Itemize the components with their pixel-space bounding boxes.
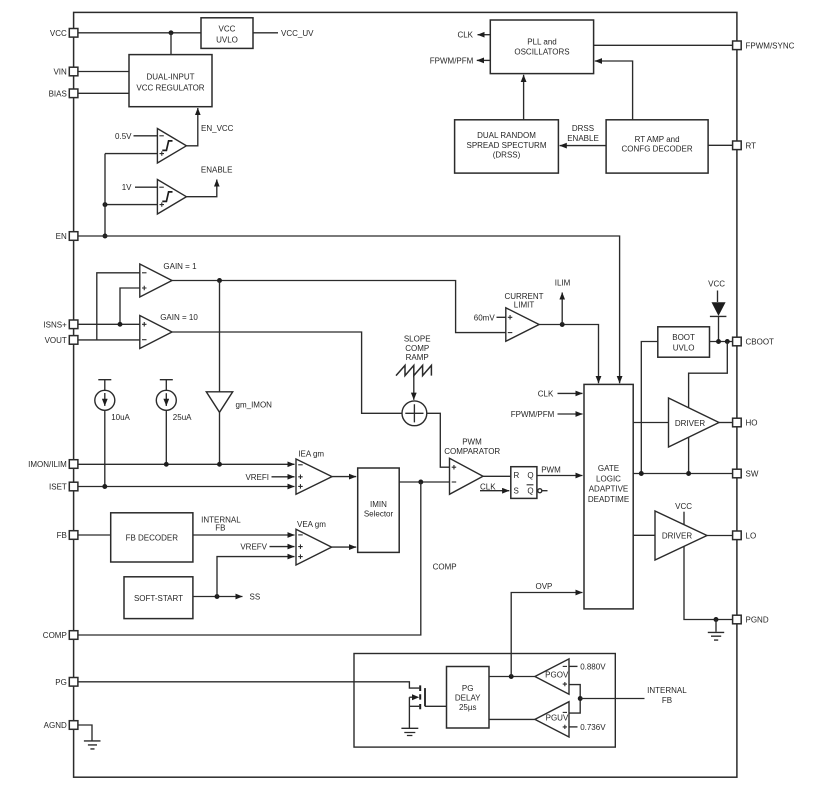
svg-text:Selector: Selector [364,510,394,519]
wire ramp to summing node [413,376,415,400]
block PG DELAY 25us [447,667,490,729]
wire 60mV input [497,316,506,318]
svg-text:25uA: 25uA [173,413,192,422]
pin FPWM/SYNC [733,41,795,50]
junction diode/CBOOT [716,339,721,344]
wire current limit output to gate logic [539,325,598,384]
pin VCC [50,29,78,38]
svg-text:1V: 1V [122,183,132,192]
wire VREFV input [270,546,295,548]
wire VCC_UV output [253,32,278,34]
op-amp IEA gm [296,450,332,495]
wire gm_IMON to IMON line [219,412,221,464]
op-amp EN_VCC comparator [157,129,186,164]
junction INTERNAL FB bracket [578,696,583,701]
wire Qbar stub [542,490,548,492]
block DUAL RANDOM SPREAD SPECTURM (DRSS) [455,120,559,173]
wire 0.736V input [569,726,578,728]
junction gm_IMON / IMON line [217,462,222,467]
svg-text:CLK: CLK [538,389,554,398]
transistor Q_PG MOSFET [409,685,446,709]
pin PG [55,678,78,687]
block VCC UVLO [201,18,253,49]
block FB DECODER [111,513,193,562]
wire BOOT UVLO input from SW [641,342,658,474]
svg-text:CBOOT: CBOOT [746,338,775,347]
svg-text:AGND: AGND [44,721,67,730]
wire VIN to regulator [78,71,129,73]
wire IEA gm output to IMIN selector [332,476,356,478]
wire PGUV output to PG delay [489,718,535,720]
op-amp GAIN = 10 [140,313,199,349]
wire gate logic to HO driver [633,422,668,424]
pin RT [733,141,757,150]
svg-text:UVLO: UVLO [216,36,238,45]
svg-text:UVLO: UVLO [673,344,695,353]
junction OVP branch [509,674,514,679]
junction ISNS+ branch [118,322,123,327]
pin SW [733,469,759,478]
wire CLK output of PLL [478,34,491,36]
junction GAIN=1 output / gm_IMON [217,278,222,283]
svg-text:EN: EN [56,232,67,241]
block IMIN Selector [358,468,400,552]
block GATE LOGIC ADAPTIVE DEADTIME [584,384,633,609]
wire 1V input [135,186,157,188]
op-amp PGOV comparator [535,659,569,694]
svg-text:VCC: VCC [708,280,725,289]
svg-text:FB: FB [662,696,672,705]
block RT AMP and CONFG DECODER [606,120,708,173]
svg-text:Q: Q [527,471,533,480]
svg-text:FB DECODER: FB DECODER [126,533,179,542]
svg-text:CLK: CLK [480,483,496,492]
ground MOSFET source [401,728,418,735]
svg-text:ENABLE: ENABLE [201,165,233,174]
current source 25uA [156,380,192,422]
wire BIAS to regulator [78,92,129,94]
svg-text:BIAS: BIAS [49,89,67,98]
wire GAIN=1 output to current limit [172,281,506,333]
block PG supervisor outer box [354,654,615,748]
svg-text:LOGIC: LOGIC [596,474,621,483]
svg-text:VEA gm: VEA gm [297,520,326,529]
svg-text:DEADTIME: DEADTIME [588,495,629,504]
svg-text:GAIN = 10: GAIN = 10 [160,313,198,322]
wire RT AMP to PLL [595,61,633,120]
block BOOT UVLO [658,327,710,357]
svg-text:CONFG DECODER: CONFG DECODER [622,145,693,154]
junction COMP node [418,480,423,485]
junction 10uA / ISET line [102,484,107,489]
wire DRSS ENABLE [560,145,607,147]
op-amp PWM COMPARATOR [444,437,500,494]
svg-text:RAMP: RAMP [406,353,429,362]
svg-text:SPREAD SPECTURM: SPREAD SPECTURM [466,141,546,150]
wire ILIM [561,293,563,325]
pin BIAS [49,89,78,98]
op-amp CURRENT LIMIT comparator [504,292,543,342]
pin ISET [49,482,78,491]
wire COMP pin riser [78,482,421,635]
wire gate logic to LO driver [633,534,655,536]
svg-text:0.880V: 0.880V [580,662,606,671]
wire VCC pin to VCC UVLO [78,32,201,34]
svg-text:IMON/ILIM: IMON/ILIM [28,460,67,469]
latch Qbar bubble [538,489,542,493]
pin ISNS+ [43,320,77,329]
wire INTERNAL FB to VEA gm [193,534,295,536]
wire FPWM/SYNC pin to PLL [594,44,733,46]
pin HO [733,418,758,427]
IC outer border [74,12,737,777]
junction SW / HO driver [686,471,691,476]
block DUAL-INPUT VCC REGULATOR [129,55,212,107]
wire PGOV/PGUV inputs bracket [569,685,580,714]
wire GAIN=10 output to summing node [172,332,402,413]
pin EN [56,232,78,241]
svg-text:COMPARATOR: COMPARATOR [444,447,500,456]
svg-text:60mV: 60mV [474,313,496,322]
wire BOOT UVLO to CBOOT pin [710,341,733,343]
pin CBOOT [733,337,774,346]
wire CLK to latch S [480,490,509,492]
summing node [402,401,427,426]
svg-text:ENABLE: ENABLE [567,134,599,143]
op-amp GAIN = 1 [140,262,197,297]
wire EN to comparator U_ENVCC plus input [105,153,157,155]
svg-text:PLL and: PLL and [527,37,557,46]
sawtooth ramp symbol [396,365,431,375]
wire diode to CBOOT [718,316,720,341]
wire ISET pin to IEA gm [78,486,295,488]
wire INTERNAL FB [580,698,644,700]
svg-text:ISET: ISET [49,483,67,492]
svg-text:25µs: 25µs [459,703,477,712]
block PLL and OSCILLATORS [490,20,593,74]
svg-text:DELAY: DELAY [455,693,481,702]
svg-text:PGUV: PGUV [546,713,569,722]
pin IMON/ILIM [28,460,78,469]
wire SS to VEA gm [217,557,295,597]
svg-text:FB: FB [215,524,225,533]
svg-text:CLK: CLK [457,31,473,40]
wire LO driver output to LO pin [707,535,733,537]
op-amp ENABLE comparator [157,180,186,215]
svg-text:PG: PG [462,684,474,693]
svg-text:DRSS: DRSS [572,124,594,133]
svg-text:ILIM: ILIM [555,279,571,288]
wire CBOOT to HO driver top [689,342,728,408]
junction CBOOT/driver feed [725,339,730,344]
ground PGND [708,620,724,641]
svg-text:BOOT: BOOT [672,333,695,342]
svg-text:INTERNAL: INTERNAL [647,686,687,695]
pin LO [733,531,757,540]
wire PWM comparator to latch R [483,475,511,477]
wire VOUT pin to gain amps [78,339,140,341]
wire RT pin to RT AMP [708,144,733,146]
op-amp HO DRIVER [669,398,720,447]
wire PGOV output to PG delay [489,676,535,678]
junction SW / BOOT UVLO [639,471,644,476]
svg-text:R: R [514,471,520,480]
svg-text:PGOV: PGOV [545,671,569,680]
svg-text:VREFV: VREFV [240,543,267,552]
wire VOUT branch to GAIN=1 minus [97,273,140,340]
svg-text:VOUT: VOUT [45,336,67,345]
svg-text:GATE: GATE [598,464,619,473]
pin PGND [733,615,769,624]
svg-text:SW: SW [746,470,759,479]
latch RS flip-flop [511,467,537,499]
wire FPWM/PFM to gate logic [558,413,583,415]
diode D_BOOT [710,302,727,316]
svg-text:VCC: VCC [50,29,67,38]
svg-text:PG: PG [55,678,67,687]
svg-text:0.5V: 0.5V [115,132,132,141]
pin FB [57,531,78,540]
svg-text:VCC: VCC [675,502,692,511]
svg-text:VCC_UV: VCC_UV [281,29,314,38]
svg-text:LIMIT: LIMIT [514,300,535,309]
wire EN comparators riser [104,154,106,236]
svg-text:DRIVER: DRIVER [675,419,705,428]
op-amp LO DRIVER [655,511,707,560]
svg-text:COMP: COMP [433,563,457,572]
current source 10uA [95,380,131,422]
svg-text:SS: SS [250,593,261,602]
wire EN pin to gate logic [78,236,620,383]
svg-text:DRIVER: DRIVER [662,532,692,541]
svg-text:VREFI: VREFI [245,473,269,482]
svg-text:EN_VCC: EN_VCC [201,124,234,133]
svg-text:DUAL-INPUT: DUAL-INPUT [146,73,194,82]
svg-text:SLOPE: SLOPE [404,335,431,344]
pin VOUT [45,336,78,345]
op-amp PGUV comparator [535,702,569,737]
junction EN vertical / comparator plus [103,202,108,207]
svg-text:S: S [514,487,519,496]
wire VREFI input [272,476,295,478]
junction PGND ground [714,617,719,622]
wire ISNS+ pin to gain amps [78,323,140,325]
junction ILIM [560,322,565,327]
svg-text:LO: LO [746,531,757,540]
svg-text:PWM: PWM [462,437,482,446]
svg-text:PGND: PGND [746,616,769,625]
wire IMON/ILIM pin to IEA gm [78,463,295,465]
wire PG pin to MOSFET drain [78,682,419,688]
wire 25uA to IMON line [165,410,167,464]
wire VCC down to regulator [170,33,172,55]
svg-text:SOFT-START: SOFT-START [134,594,183,603]
op-amp VEA gm [296,520,332,565]
wire HO driver return to SW [688,437,690,473]
wire DRSS to PLL [523,75,525,120]
svg-text:OSCILLATORS: OSCILLATORS [514,47,569,56]
svg-text:ISNS+: ISNS+ [43,320,67,329]
wire AGND pin to ground [78,725,92,741]
pin COMP [43,631,78,640]
wire FPWM/PFM output of PLL [477,59,491,61]
svg-text:VCC REGULATOR: VCC REGULATOR [136,84,204,93]
wire 0.5V input [134,135,158,137]
wire EN to comparator U_ENABLE plus input [105,204,157,206]
wire HO driver output to HO pin [719,422,733,424]
svg-text:gm_IMON: gm_IMON [236,401,273,410]
wire CLK to gate logic [558,392,583,394]
svg-text:VCC: VCC [219,25,236,34]
svg-text:IEA gm: IEA gm [298,450,324,459]
junction VCC/regulator [169,30,174,35]
wire 0.880V input [569,665,578,667]
junction SS branch [215,594,220,599]
wire SS output [193,596,243,598]
svg-text:ADAPTIVE: ADAPTIVE [589,485,629,494]
wire summing node to PWM comparator [427,413,450,467]
wire MOSFET source to ground [408,697,410,728]
block SOFT-START [124,577,193,619]
svg-text:HO: HO [746,419,758,428]
svg-text:RT AMP and: RT AMP and [635,135,680,144]
wire ENABLE output [186,180,216,197]
wire ISNS+ branch to GAIN=1 plus [120,288,140,324]
svg-text:DUAL RANDOM: DUAL RANDOM [477,131,536,140]
svg-text:COMP: COMP [405,344,429,353]
svg-text:Q: Q [527,487,533,496]
svg-text:VIN: VIN [53,68,67,77]
wire VEA gm output to IMIN selector [332,546,357,548]
svg-text:10uA: 10uA [111,413,130,422]
junction EN line [103,234,108,239]
svg-text:COMP: COMP [43,631,67,640]
svg-text:OVP: OVP [536,582,553,591]
wire LO driver return to PGND [684,546,733,619]
svg-text:GAIN = 1: GAIN = 1 [163,262,197,271]
wire SW line [633,473,732,475]
wire VCC to diode [717,291,719,303]
svg-text:FPWM/SYNC: FPWM/SYNC [746,41,795,50]
svg-text:FB: FB [57,531,67,540]
ground AGND [84,741,101,749]
wire PWM latch output to gate logic [537,475,583,477]
junction 25uA / IMON line [164,462,169,467]
svg-text:0.736V: 0.736V [580,723,606,732]
pin VIN [53,67,77,76]
pin AGND [44,721,78,730]
svg-text:IMIN: IMIN [370,500,387,509]
wire FB pin to FB decoder [78,534,111,536]
wire 10uA to ISET line [104,410,106,486]
wire VCC to LO driver [683,512,685,525]
svg-text:RT: RT [746,141,757,150]
svg-text:FPWM/PFM: FPWM/PFM [511,410,555,419]
svg-text:FPWM/PFM: FPWM/PFM [430,56,474,65]
svg-text:PWM: PWM [541,465,561,474]
wire EN_VCC comparator output to regulator [186,108,197,146]
svg-text:(DRSS): (DRSS) [493,151,521,160]
wire IMIN output to PWM comparator [399,481,449,483]
wire OVP to gate logic [511,593,582,677]
wire GAIN=1 output down to gm_IMON [219,281,221,392]
transistor gm_IMON buffer [206,392,272,413]
